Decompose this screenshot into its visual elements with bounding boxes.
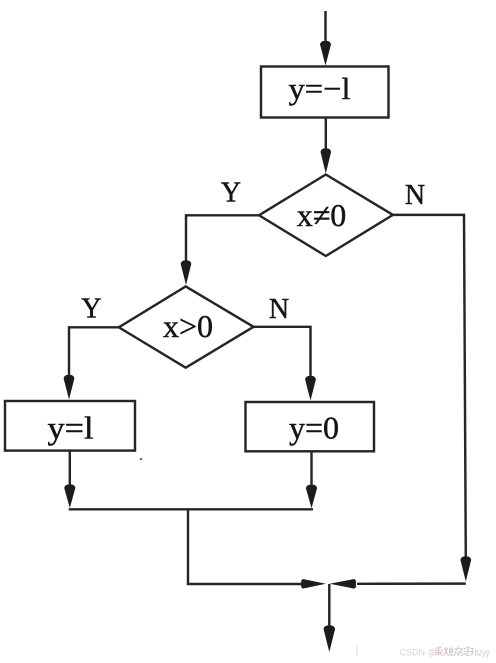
start wire <box>324 11 326 48</box>
arrowhead leftward into junction <box>330 579 356 588</box>
wire decision2 Y branch <box>69 327 119 380</box>
process box y=-1 <box>261 67 389 118</box>
wire decision1 N branch <box>393 215 466 560</box>
svg-text:y=0: y=0 <box>289 410 339 446</box>
watermark CSDN <box>400 647 435 658</box>
svg-text:CSDN: CSDN <box>400 647 426 658</box>
merge bar <box>69 508 313 510</box>
svg-text:Y: Y <box>81 294 101 325</box>
process box y=1 <box>5 401 135 451</box>
wire decision2 N branch <box>254 327 311 379</box>
svg-text:y=l: y=l <box>48 410 94 446</box>
svg-text:x≠0: x≠0 <box>297 197 347 233</box>
wire y=1 down to merge bar <box>69 451 71 488</box>
svg-text:N: N <box>269 294 289 325</box>
arrowhead start into y=-1 <box>320 41 331 66</box>
faint scan dash <box>356 646 358 656</box>
decision diamond x!=0 <box>259 175 393 257</box>
decision diamond x>0 <box>119 286 254 367</box>
svg-text:N: N <box>405 180 425 211</box>
arrowhead into y=1 <box>64 375 75 400</box>
process box y=0 <box>246 402 375 451</box>
arrowhead rightward into junction <box>301 579 326 588</box>
arrowhead y=1 into merge bar <box>64 485 75 509</box>
svg-text:x>0: x>0 <box>163 308 213 344</box>
arrowhead N branch down at corner <box>460 557 471 582</box>
wire decision1 Y branch <box>186 215 259 266</box>
wire box to decision 1 <box>325 118 327 156</box>
speck <box>140 458 143 461</box>
wire y=0 down to merge bar <box>310 451 312 488</box>
wire N branch bottom horizontal <box>357 582 466 585</box>
arrowhead y=0 into merge bar <box>306 485 317 509</box>
watermark bzyy <box>475 647 490 657</box>
wire junction to bottom <box>328 584 330 630</box>
watermark hanzi (drawn) <box>434 647 474 656</box>
svg-text:Y: Y <box>221 178 241 209</box>
wire merge drop <box>188 509 304 584</box>
arrowhead final bottom <box>324 626 336 653</box>
svg-text:bzyy: bzyy <box>475 647 490 657</box>
arrowhead into decision1 <box>321 149 332 174</box>
arrowhead into decision2 <box>181 261 192 286</box>
svg-text:y=−l: y=−l <box>289 71 351 106</box>
svg-text:@: @ <box>428 647 434 658</box>
arrowhead into y=0 <box>305 376 316 401</box>
